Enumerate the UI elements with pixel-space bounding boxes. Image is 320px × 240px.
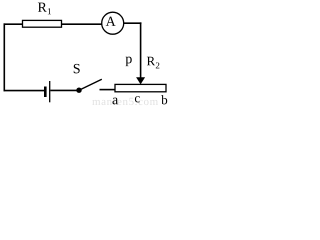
terminal label c: [135, 96, 140, 102]
switch label S: [74, 64, 80, 73]
wire: switch to rheostat: [100, 89, 116, 91]
ammeter label A: [106, 17, 116, 26]
wire: top left horizontal: [4, 23, 24, 25]
wire: right vertical to wiper: [140, 22, 142, 78]
wire: R1 to ammeter: [62, 23, 102, 25]
wire: battery to switch: [50, 89, 77, 91]
wire: ammeter to top-right corner: [124, 22, 142, 24]
switch pivot dot: [76, 88, 81, 93]
battery positive long plate: [49, 81, 51, 102]
label R2: [147, 57, 160, 69]
terminal label b: [161, 95, 167, 104]
switch blade: [80, 79, 102, 90]
resistor R1: [23, 20, 62, 27]
battery negative short plate: [44, 87, 47, 98]
watermark manfen5.com: [92, 97, 158, 105]
wiper arrow: [136, 77, 145, 84]
terminal label a: [112, 98, 118, 105]
wire: bottom left to battery: [4, 90, 45, 92]
ammeter U1: [102, 12, 124, 34]
label R1: [38, 3, 51, 15]
wire: left vertical: [3, 23, 5, 91]
label p: [126, 57, 132, 67]
rheostat R2 body: [115, 84, 166, 91]
